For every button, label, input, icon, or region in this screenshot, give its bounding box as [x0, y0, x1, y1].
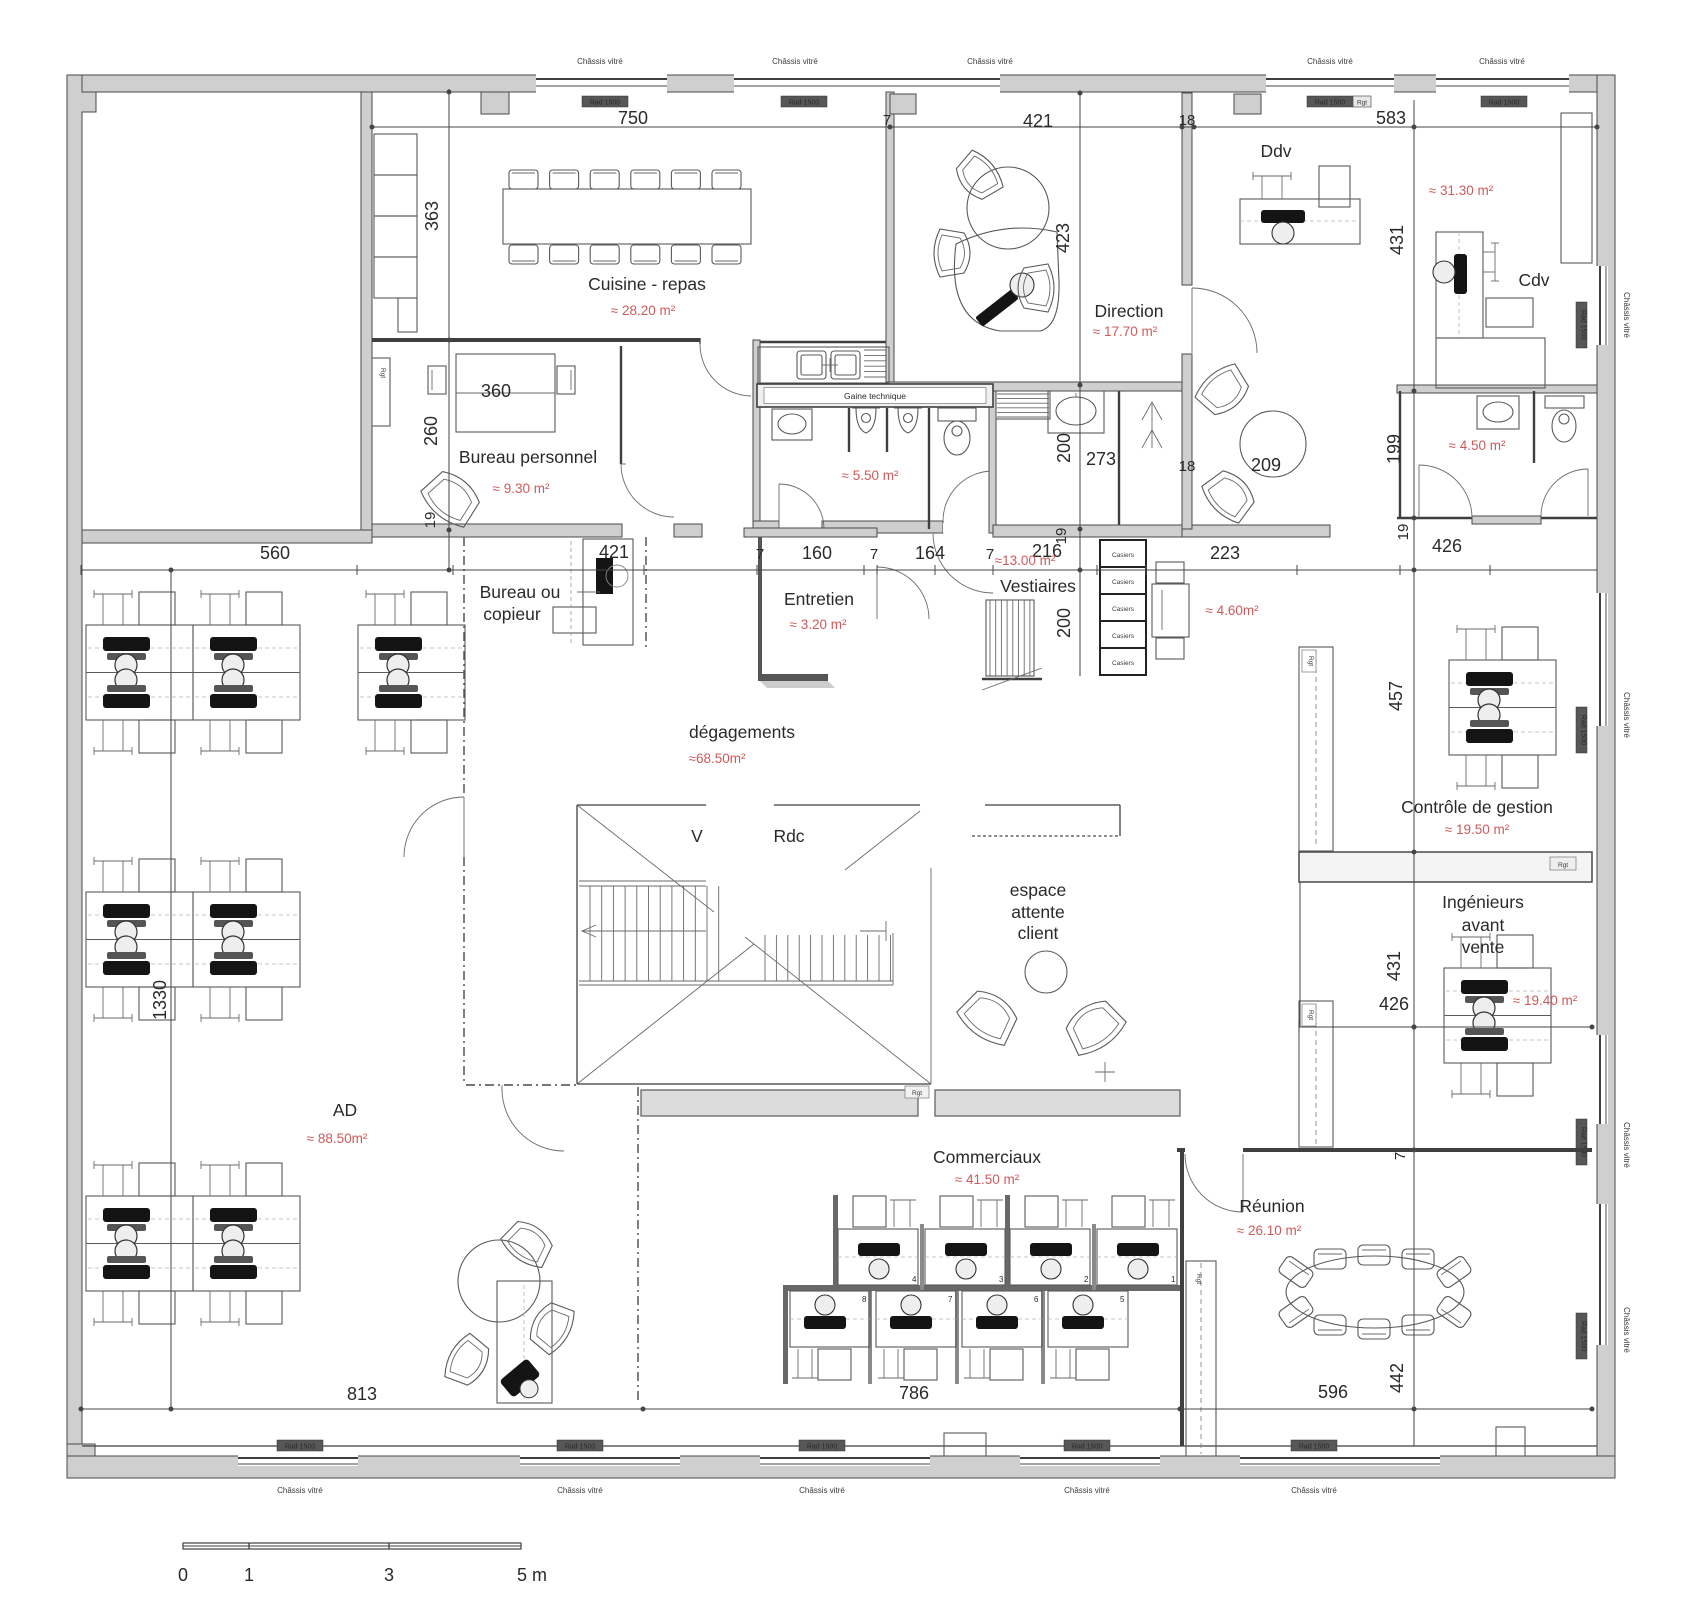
vestiaires stairs — [982, 600, 1042, 690]
svg-text:209: 209 — [1251, 455, 1281, 475]
Ddv desk — [1240, 166, 1360, 244]
svg-text:426: 426 — [1379, 994, 1409, 1014]
svg-text:596: 596 — [1318, 1382, 1348, 1402]
wall: big storage room right — [361, 92, 372, 538]
dimension labels — [150, 108, 1462, 1404]
svg-text:vente: vente — [1462, 937, 1505, 957]
right WC toilet — [1545, 396, 1584, 442]
svg-text:Châssis vitré: Châssis vitré — [1622, 692, 1631, 738]
stair diagonals — [577, 805, 931, 1084]
dim line corridor y570 — [81, 565, 1597, 575]
wall: WC block bottom — [753, 521, 993, 533]
kitchen sink counter — [758, 347, 889, 383]
door arc Reunion — [1185, 1154, 1243, 1212]
glazed low wall band above Commerciaux — [641, 1090, 1180, 1116]
Cdv desk — [1433, 232, 1545, 388]
svg-text:7: 7 — [883, 112, 891, 129]
WC washbasin — [772, 409, 812, 440]
svg-text:421: 421 — [599, 542, 629, 562]
svg-text:Cdv: Cdv — [1518, 270, 1549, 290]
svg-text:Châssis vitré: Châssis vitré — [1622, 292, 1631, 338]
column boxes top wall — [481, 92, 1261, 114]
door arc Direction — [1192, 288, 1257, 353]
middle room stair hatch — [996, 391, 1050, 419]
svg-text:Rad 1500: Rad 1500 — [1580, 310, 1587, 340]
Direction washbasin — [1048, 391, 1104, 433]
svg-text:Rgt: Rgt — [912, 1090, 922, 1097]
dim line horizontal x1299-1592 y1027 — [1299, 1022, 1594, 1032]
svg-text:Contrôle de gestion: Contrôle de gestion — [1401, 797, 1553, 817]
svg-text:4: 4 — [912, 1275, 917, 1284]
svg-text:223: 223 — [1210, 543, 1240, 563]
svg-text:Gaine technique: Gaine technique — [844, 391, 906, 401]
svg-text:Châssis vitré: Châssis vitré — [799, 1486, 845, 1495]
svg-text:426: 426 — [1432, 536, 1462, 556]
svg-text:560: 560 — [260, 543, 290, 563]
svg-text:Rad 1500: Rad 1500 — [807, 1444, 837, 1451]
svg-text:copieur: copieur — [483, 604, 541, 624]
bureau personnel armchair — [416, 464, 486, 533]
svg-text:Châssis vitré: Châssis vitré — [577, 57, 623, 66]
svg-text:attente: attente — [1011, 902, 1065, 922]
red area labels — [307, 183, 1578, 1238]
dim line vertical x449 — [447, 89, 451, 572]
svg-text:360: 360 — [481, 381, 511, 401]
door arc kitchen — [700, 344, 751, 396]
svg-text:Casiers: Casiers — [1112, 660, 1135, 667]
dim line vertical x1414 — [1412, 100, 1416, 1446]
svg-text:1: 1 — [1171, 1275, 1176, 1284]
svg-text:Casiers: Casiers — [1112, 552, 1135, 559]
door arc vestiaires — [933, 533, 993, 593]
door arcs WC — [779, 484, 824, 529]
svg-text:1: 1 — [244, 1565, 254, 1585]
scale bar — [178, 1543, 547, 1585]
svg-text:1330: 1330 — [150, 980, 170, 1020]
svg-text:18: 18 — [1179, 458, 1196, 475]
svg-text:Entretien: Entretien — [784, 589, 854, 609]
svg-text:8: 8 — [862, 1295, 867, 1304]
window labels right — [1576, 292, 1631, 1359]
svg-text:260: 260 — [421, 416, 441, 446]
svg-text:7: 7 — [948, 1295, 953, 1304]
round table 209 — [1240, 411, 1306, 477]
wall: right WC bottom — [1397, 516, 1597, 524]
casiers lockers — [1100, 540, 1146, 675]
small rgt labels — [905, 1062, 1115, 1098]
Commerciaux bottom stations — [790, 1291, 870, 1380]
svg-text:espace: espace — [1010, 880, 1066, 900]
dim line vertical x171 — [169, 568, 173, 1411]
stair flights — [579, 881, 893, 985]
wall: kitchen / bureau personnel divider — [372, 340, 893, 342]
svg-text:0: 0 — [178, 1565, 188, 1585]
wall: right WC divider — [1533, 391, 1535, 463]
svg-text:avant: avant — [1462, 915, 1505, 935]
svg-text:≈ 41.50 m²: ≈ 41.50 m² — [955, 1172, 1020, 1187]
tall cabinet right of Cdv — [1561, 113, 1592, 263]
door arc bureau personnel — [621, 464, 674, 517]
espace attente table+chairs — [953, 951, 1130, 1061]
svg-text:431: 431 — [1384, 951, 1404, 981]
cabinet Controle left — [1299, 647, 1333, 851]
svg-text:164: 164 — [915, 543, 945, 563]
svg-text:Rad 1500: Rad 1500 — [1489, 100, 1519, 107]
svg-text:dégagements: dégagements — [689, 722, 795, 742]
svg-text:≈ 5.50 m²: ≈ 5.50 m² — [842, 468, 899, 483]
outer wall right — [1596, 75, 1615, 1456]
bureau personnel desk — [428, 354, 575, 432]
svg-text:583: 583 — [1376, 108, 1406, 128]
door arcs right WC — [1419, 465, 1472, 518]
svg-text:786: 786 — [899, 1383, 929, 1403]
svg-text:Casiers: Casiers — [1112, 606, 1135, 613]
svg-text:Ddv: Ddv — [1260, 141, 1291, 161]
dashed partition x638 (AD / Commerciaux) — [637, 1087, 639, 1403]
svg-text:Rgt: Rgt — [1307, 1010, 1314, 1020]
wall: right WC left — [1399, 391, 1401, 518]
door arc at stair bottom left — [502, 1089, 564, 1151]
svg-text:2: 2 — [1084, 1275, 1089, 1284]
svg-text:≈ 19.40 m²: ≈ 19.40 m² — [1513, 993, 1578, 1008]
svg-text:Rad 1500: Rad 1500 — [1315, 100, 1345, 107]
window labels bottom — [277, 1440, 1337, 1495]
svg-text:Rgt: Rgt — [1558, 862, 1568, 869]
svg-text:Châssis vitré: Châssis vitré — [1064, 1486, 1110, 1495]
Reunion table — [1277, 1245, 1473, 1339]
svg-text:160: 160 — [802, 543, 832, 563]
svg-text:Rdc: Rdc — [773, 826, 804, 846]
svg-text:5 m: 5 m — [517, 1565, 547, 1585]
Commerciaux partitions — [783, 1195, 1180, 1384]
svg-text:Rad 1500: Rad 1500 — [1580, 1321, 1587, 1351]
svg-text:Châssis vitré: Châssis vitré — [1622, 1122, 1631, 1168]
wall: middle room divider x1119 — [1118, 391, 1120, 529]
Direction desk group — [954, 167, 1059, 331]
svg-text:7: 7 — [1392, 1152, 1409, 1160]
svg-text:≈ 26.10 m²: ≈ 26.10 m² — [1237, 1223, 1302, 1238]
copier desk — [553, 539, 633, 645]
svg-text:≈ 31.30 m²: ≈ 31.30 m² — [1429, 183, 1494, 198]
svg-text:Commerciaux: Commerciaux — [933, 1147, 1041, 1167]
svg-text:Ingénieurs: Ingénieurs — [1442, 892, 1524, 912]
dashed partition x463 — [463, 537, 465, 1085]
svg-text:7: 7 — [986, 546, 994, 563]
door arc entretien — [877, 567, 929, 619]
svg-text:Châssis vitré: Châssis vitré — [277, 1486, 323, 1495]
svg-text:≈ 3.20 m²: ≈ 3.20 m² — [790, 617, 847, 632]
svg-text:V: V — [691, 826, 703, 846]
wall: Cdv bottom — [1397, 385, 1597, 393]
arrow symbol — [1142, 402, 1162, 448]
dim line vertical x1080 — [1078, 91, 1082, 676]
AD desk clusters row2 — [86, 857, 193, 1022]
svg-text:Vestiaires: Vestiaires — [1000, 576, 1076, 596]
wall Commerciaux/Reunion x1182 — [1180, 1148, 1184, 1446]
svg-text:Rad 1500: Rad 1500 — [1580, 715, 1587, 745]
svg-text:Direction: Direction — [1094, 301, 1163, 321]
kitchen chairs — [509, 170, 741, 264]
svg-text:Cuisine - repas: Cuisine - repas — [588, 274, 706, 294]
svg-text:Réunion: Réunion — [1239, 1196, 1304, 1216]
svg-text:3: 3 — [384, 1565, 394, 1585]
svg-text:200: 200 — [1054, 433, 1074, 463]
svg-text:≈ 28.20 m²: ≈ 28.20 m² — [611, 303, 676, 318]
AD desk clusters row1 — [86, 590, 193, 755]
svg-text:Châssis vitré: Châssis vitré — [967, 57, 1013, 66]
svg-text:6: 6 — [1034, 1295, 1039, 1304]
svg-text:199: 199 — [1384, 434, 1404, 464]
dashed boundary copier room — [645, 537, 647, 648]
svg-text:19: 19 — [1395, 524, 1412, 541]
svg-text:≈ 17.70 m²: ≈ 17.70 m² — [1093, 324, 1158, 339]
wall: kitchen right / Direction left — [886, 92, 894, 384]
opening above espace attente — [972, 805, 1120, 836]
svg-text:Châssis vitré: Châssis vitré — [1307, 57, 1353, 66]
gaine technique — [757, 384, 993, 407]
wall: bureau personnel right — [620, 346, 622, 464]
wall: Direction/Ddv partition x1182 — [1182, 93, 1192, 529]
svg-text:273: 273 — [1086, 449, 1116, 469]
svg-text:Casiers: Casiers — [1112, 633, 1135, 640]
svg-text:5: 5 — [1120, 1295, 1125, 1304]
svg-text:Rad 1500: Rad 1500 — [1072, 1444, 1102, 1451]
cabinet band below Controle — [1299, 852, 1592, 882]
svg-text:Bureau ou: Bureau ou — [480, 582, 561, 602]
svg-text:Rad 1500: Rad 1500 — [565, 1444, 595, 1451]
svg-text:Rgt: Rgt — [1307, 656, 1314, 666]
kitchen cupboards left — [374, 134, 417, 332]
svg-text:Rad 1500: Rad 1500 — [1580, 1127, 1587, 1157]
svg-text:423: 423 — [1053, 223, 1073, 253]
urinals — [849, 408, 922, 452]
svg-text:18: 18 — [1179, 112, 1196, 129]
svg-text:750: 750 — [618, 108, 648, 128]
entretien walls — [744, 528, 877, 688]
svg-text:421: 421 — [1023, 111, 1053, 131]
wall: corridor band below middle rooms — [993, 525, 1182, 537]
svg-text:Châssis vitré: Châssis vitré — [557, 1486, 603, 1495]
kitchen table — [503, 189, 751, 244]
svg-text:Rad 1500: Rad 1500 — [285, 1444, 315, 1451]
svg-text:Châssis vitré: Châssis vitré — [1291, 1486, 1337, 1495]
wall Reunion top — [1177, 1148, 1592, 1152]
wall: big storage room bottom — [82, 530, 372, 543]
svg-text:19: 19 — [422, 512, 439, 529]
svg-text:≈ 4.60m²: ≈ 4.60m² — [1205, 603, 1259, 618]
svg-text:Casiers: Casiers — [1112, 579, 1135, 586]
dim line vertical x1300 (controle) — [1299, 882, 1301, 1027]
cabinet Ingenieurs left — [1299, 1001, 1333, 1147]
svg-text:AD: AD — [333, 1100, 357, 1120]
svg-text:Rad 1500: Rad 1500 — [789, 100, 819, 107]
dashed segment left of stair bottom — [466, 1084, 577, 1086]
wall: band right of vestiaires — [1182, 525, 1330, 537]
wall: WC block left — [753, 340, 760, 530]
stair void outline — [577, 805, 931, 1084]
svg-text:≈ 19.50 m²: ≈ 19.50 m² — [1445, 822, 1510, 837]
svg-text:Rgt: Rgt — [1357, 100, 1367, 107]
right WC washbasin — [1477, 396, 1519, 429]
cabinet Reunion left — [1186, 1261, 1216, 1456]
Commerciaux top stations — [838, 1196, 918, 1285]
bureau personnel cabinet — [372, 358, 390, 426]
svg-text:Rad 1500: Rad 1500 — [1299, 1444, 1329, 1451]
outer wall bottom — [67, 1444, 1615, 1478]
dim line bottom y1409 — [79, 1407, 1594, 1411]
svg-text:7: 7 — [870, 546, 878, 563]
AD desk clusters row3 — [86, 1161, 193, 1326]
svg-text:≈ 88.50m²: ≈ 88.50m² — [307, 1131, 368, 1146]
room labels — [333, 141, 1553, 1216]
door arc on dashed partition — [404, 797, 464, 857]
Direction chairs — [949, 146, 1007, 206]
svg-text:Rgt: Rgt — [379, 368, 386, 378]
svg-text:442: 442 — [1387, 1363, 1407, 1393]
svg-text:Châssis vitré: Châssis vitré — [1479, 57, 1525, 66]
svg-text:Bureau personnel: Bureau personnel — [459, 447, 597, 467]
column box right mid — [944, 1427, 1525, 1456]
svg-text:Châssis vitré: Châssis vitré — [772, 57, 818, 66]
Ingenieurs cluster — [1444, 933, 1551, 1098]
svg-text:client: client — [1018, 923, 1059, 943]
svg-text:431: 431 — [1387, 225, 1407, 255]
svg-text:457: 457 — [1386, 681, 1406, 711]
svg-text:813: 813 — [347, 1384, 377, 1404]
corridor band south of kitchen block — [372, 524, 702, 537]
svg-text:≈ 9.30 m²: ≈ 9.30 m² — [493, 481, 550, 496]
window labels top — [577, 57, 1527, 107]
Controle de gestion cluster — [1449, 625, 1556, 790]
svg-text:3: 3 — [999, 1275, 1004, 1284]
AD meeting table — [439, 1214, 580, 1407]
wall: WC right — [989, 384, 996, 533]
WC toilet — [929, 408, 976, 529]
svg-text:Rad 1500: Rad 1500 — [590, 100, 620, 107]
outer wall top — [67, 74, 1615, 93]
svg-text:Châssis vitré: Châssis vitré — [1622, 1307, 1631, 1353]
svg-text:≈ 4.50 m²: ≈ 4.50 m² — [1449, 438, 1506, 453]
vestiaires table — [1152, 562, 1189, 659]
svg-text:≈68.50m²: ≈68.50m² — [689, 751, 746, 766]
wall: Direction bottom — [887, 382, 1182, 391]
svg-text:Rgt: Rgt — [1195, 1274, 1202, 1284]
svg-text:363: 363 — [422, 201, 442, 231]
dim line top y127 — [370, 125, 1599, 129]
svg-text:≈13.00 m²: ≈13.00 m² — [995, 553, 1056, 568]
svg-text:7: 7 — [756, 546, 764, 563]
outer wall left — [67, 75, 96, 1456]
svg-text:200: 200 — [1054, 608, 1074, 638]
